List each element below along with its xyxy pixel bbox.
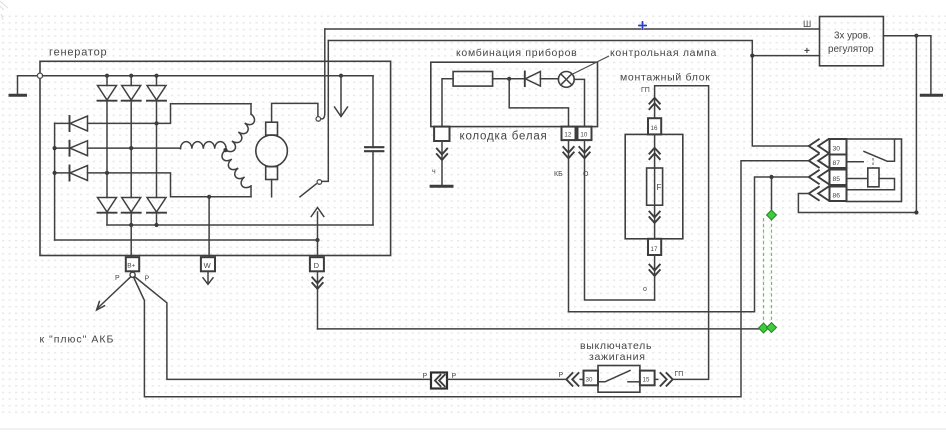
svg-text:Р: Р xyxy=(559,372,564,379)
ignition switch box xyxy=(598,366,640,393)
wire: ground bus (top, inside generator) xyxy=(43,75,373,77)
chevrons inside block (up) xyxy=(649,148,659,159)
wire: pin 16 down to fuse xyxy=(654,134,656,168)
fuse F xyxy=(647,168,663,205)
chevrons at relay pin 86 xyxy=(809,187,828,200)
junction dot row2/col2 xyxy=(129,146,133,150)
chevrons at relay pin 87 xyxy=(809,154,828,167)
wire: resistor right to diode xyxy=(493,78,524,80)
scan artifact top-left corner xyxy=(0,1,8,20)
bottom page rule xyxy=(0,428,946,430)
junction dot + node xyxy=(750,54,754,58)
green mod marker: dashed wire 1 xyxy=(763,218,765,325)
wire: B+ to relay 87 (long bottom wire) xyxy=(134,161,809,397)
star point junction xyxy=(223,148,227,152)
stator winding L2 (horizontal) xyxy=(181,142,227,149)
wire: 85 branch stub down (mod point) xyxy=(771,177,773,214)
diode VD1 (top row, col 1, pointing down) xyxy=(98,76,117,124)
pin B+ box xyxy=(126,257,139,271)
green handle (top) xyxy=(767,210,777,220)
chevrons below D pin xyxy=(312,271,322,329)
relay pin 87 box xyxy=(830,155,847,169)
wire: aux output bus (y=240) xyxy=(55,239,318,241)
resistor R1 xyxy=(453,72,493,87)
relay pin 85 box xyxy=(830,170,847,186)
diode VD4 (bottom row, col 1, pointing down) xyxy=(98,123,117,225)
wire: regulator output to ground xyxy=(883,36,931,94)
wire: B+ pin lead xyxy=(130,225,132,257)
svg-text:Р: Р xyxy=(115,275,120,282)
arrow below W xyxy=(203,271,213,284)
junction dots on ground bus xyxy=(105,74,109,78)
junction dot W tap xyxy=(207,195,211,199)
svg-text:10: 10 xyxy=(580,132,587,139)
mounting block box xyxy=(625,134,683,238)
wire: + stub to regulator xyxy=(752,55,819,57)
wire: B+ bus (y=225) xyxy=(107,224,373,226)
wire: W pin lead xyxy=(208,197,210,257)
wire: resistor left to white connector pin xyxy=(442,79,453,127)
svg-text:Р: Р xyxy=(145,276,150,283)
wire: aux diode bus (left vertical) xyxy=(54,123,56,240)
junction dot (resistor-diode node) xyxy=(507,77,511,81)
control lamp pointer line xyxy=(571,56,609,75)
wire: phase row 2 (aux diode row y=148.1) xyxy=(55,147,181,149)
svg-text:12: 12 xyxy=(564,132,571,139)
svg-text:F: F xyxy=(657,183,662,192)
wire: pin 17 down to pin 10 wire xyxy=(654,255,656,300)
wire: bottom brush to blade foot xyxy=(271,180,273,197)
diode VD2 (top row, col 2, pointing down) xyxy=(122,76,141,148)
instrument cluster box xyxy=(431,62,598,126)
junction dot aux bus / D lead xyxy=(315,238,319,242)
generator box xyxy=(40,61,391,255)
rotor slip rings xyxy=(256,135,288,167)
green mod marker: dashed wire 2 xyxy=(771,218,773,324)
svg-text:Р: Р xyxy=(423,373,428,380)
field contact circle (upper) xyxy=(316,117,321,122)
wire: ground branch down to relay 86 xyxy=(798,36,916,213)
wire: D pin lead with arrow toward blade xyxy=(311,208,324,258)
wire: pin 12 (КБ) to relay 85 xyxy=(569,177,809,312)
stator winding L1 (to top) xyxy=(250,104,252,114)
svg-text:86: 86 xyxy=(833,193,841,200)
diode VD3 (top row, col 3, pointing down) xyxy=(147,76,166,124)
svg-text:регулятор: регулятор xyxy=(828,44,874,55)
pin W box xyxy=(201,257,215,271)
chevrons at relay pin 30 xyxy=(809,139,828,152)
chevrons inside block (down) xyxy=(649,212,659,223)
chevrons at relay pin 85 xyxy=(809,170,828,183)
brush (bottom) xyxy=(266,167,278,180)
relay coil (85-86) xyxy=(848,168,895,190)
relay pin 86 box xyxy=(830,187,847,202)
wire: Ш to regulator xyxy=(325,28,820,30)
brush (top) xyxy=(266,122,278,135)
junction dots on aux bus xyxy=(53,146,57,150)
chevrons left of ignition switch xyxy=(566,373,583,386)
wire: phase row 1 (aux diode row y=123.4) xyxy=(55,104,251,124)
blade contact circle (lower) xyxy=(317,180,322,185)
ignition pin 15 box xyxy=(640,371,655,386)
wire: phase row 3 (aux diode row y=172.9) xyxy=(55,173,251,197)
control lamp HL1 xyxy=(558,72,574,88)
svg-text:ч: ч xyxy=(432,169,436,176)
chevrons below white connector pin xyxy=(437,141,447,186)
P-P inline connector box xyxy=(431,373,447,389)
diode VD10 (pointing left) xyxy=(525,72,559,87)
ignition pin 30 box xyxy=(584,371,599,386)
regulator switch blade (inside generator) xyxy=(300,184,316,197)
junction dot 85 branch xyxy=(769,175,773,179)
svg-text:17: 17 xyxy=(651,246,658,253)
ground (instrument cluster) xyxy=(430,185,454,188)
к "плюс" АКБ arrow from B+ xyxy=(97,277,131,310)
svg-text:контрольная лампа: контрольная лампа xyxy=(610,47,717,59)
svg-text:15: 15 xyxy=(643,376,650,383)
wire: B+ to ignition switch 30 xyxy=(135,277,431,380)
wire: node to pin 12 xyxy=(509,79,568,127)
svg-text:В+: В+ xyxy=(127,263,135,270)
arrow to chassis (inside generator) xyxy=(335,76,348,117)
svg-text:Ш: Ш xyxy=(803,19,811,29)
chevrons above pin 16 xyxy=(649,98,659,109)
junction dots on B+ bus xyxy=(129,223,133,227)
svg-text:монтажный блок: монтажный блок xyxy=(620,72,711,84)
chevrons below pin 17 xyxy=(649,265,659,276)
pin 16 box xyxy=(648,118,661,134)
diode VD5 (bottom row, col 2, pointing down) xyxy=(122,148,141,225)
relay K1 body xyxy=(847,139,902,202)
wire: pin 16 up and over to ignition switch 15 xyxy=(655,86,709,380)
junction dot at 86 corner xyxy=(914,210,918,214)
chevrons right of ignition switch (pointing right) xyxy=(655,373,673,386)
junction dot row3/col1 xyxy=(105,171,109,175)
svg-text:ГП: ГП xyxy=(675,371,684,378)
aux diode VD7 (left column, row 1, pointing left) xyxy=(70,116,88,131)
svg-text:W: W xyxy=(204,261,212,270)
relay pin 30 box xyxy=(830,139,847,155)
wire: lamp to pin 10 xyxy=(574,79,584,126)
wire: fuse down to pin 17 xyxy=(654,205,656,240)
diode VD6 (bottom row, col 3, pointing down) xyxy=(147,123,166,225)
svg-text:3х уров.: 3х уров. xyxy=(834,31,871,42)
junction dot row1/col3 xyxy=(154,121,158,125)
capacitor C1 xyxy=(364,76,384,225)
blue cursor cross xyxy=(638,21,647,30)
pin D box xyxy=(310,257,324,271)
chevrons below pin 12 xyxy=(563,140,573,312)
wire: connector to ignition chevron xyxy=(447,378,566,380)
ground (regulator) xyxy=(920,94,943,97)
svg-text:87: 87 xyxy=(833,160,841,167)
green handle (bottom left) xyxy=(759,323,769,333)
wire: D lead to mod point xyxy=(318,328,764,330)
svg-text:16: 16 xyxy=(651,125,658,132)
svg-text:30: 30 xyxy=(586,376,593,383)
aux diode VD8 (left column, row 2, pointing left) xyxy=(70,141,88,156)
svg-text:D: D xyxy=(314,261,320,270)
svg-text:ГП: ГП xyxy=(641,87,650,94)
wire: Ш drop into generator xyxy=(322,29,325,119)
svg-text:генератор: генератор xyxy=(49,47,107,59)
svg-text:о: о xyxy=(643,286,647,293)
chevrons below pin 10 xyxy=(579,140,654,300)
svg-text:к "плюс" АКБ: к "плюс" АКБ xyxy=(40,333,115,345)
B+ terminal contact circle xyxy=(130,272,135,277)
svg-text:зажигания: зажигания xyxy=(589,351,646,363)
pin 10 box xyxy=(578,127,592,141)
wire: top brush to field contact xyxy=(272,103,318,122)
white connector pin (left, unmarked) xyxy=(434,127,449,141)
svg-text:85: 85 xyxy=(833,176,841,183)
pin 12 box xyxy=(562,127,576,141)
svg-text:О: О xyxy=(583,171,589,178)
ignition switch contact xyxy=(598,371,640,382)
ground (generator left) xyxy=(9,76,41,96)
junction dot regulator ground branch xyxy=(914,34,918,38)
node at generator ground terminal xyxy=(37,73,42,78)
relay contact (30-87) xyxy=(848,140,895,168)
wire: + drop into generator (to blade) xyxy=(322,41,328,182)
svg-text:30: 30 xyxy=(833,146,841,153)
svg-text:комбинация приборов: комбинация приборов xyxy=(456,47,577,59)
svg-text:КБ: КБ xyxy=(554,171,563,178)
green handle (bottom right) xyxy=(767,323,777,333)
stator winding L3 (to bottom) xyxy=(220,150,251,190)
aux diode VD9 (left column, row 3, pointing left) xyxy=(70,166,88,181)
svg-text:колодка белая: колодка белая xyxy=(460,131,548,143)
pin 17 box xyxy=(648,239,661,255)
three-level regulator box xyxy=(820,17,884,66)
wire: + bus from generator to regulator and relay 30 xyxy=(328,41,809,147)
